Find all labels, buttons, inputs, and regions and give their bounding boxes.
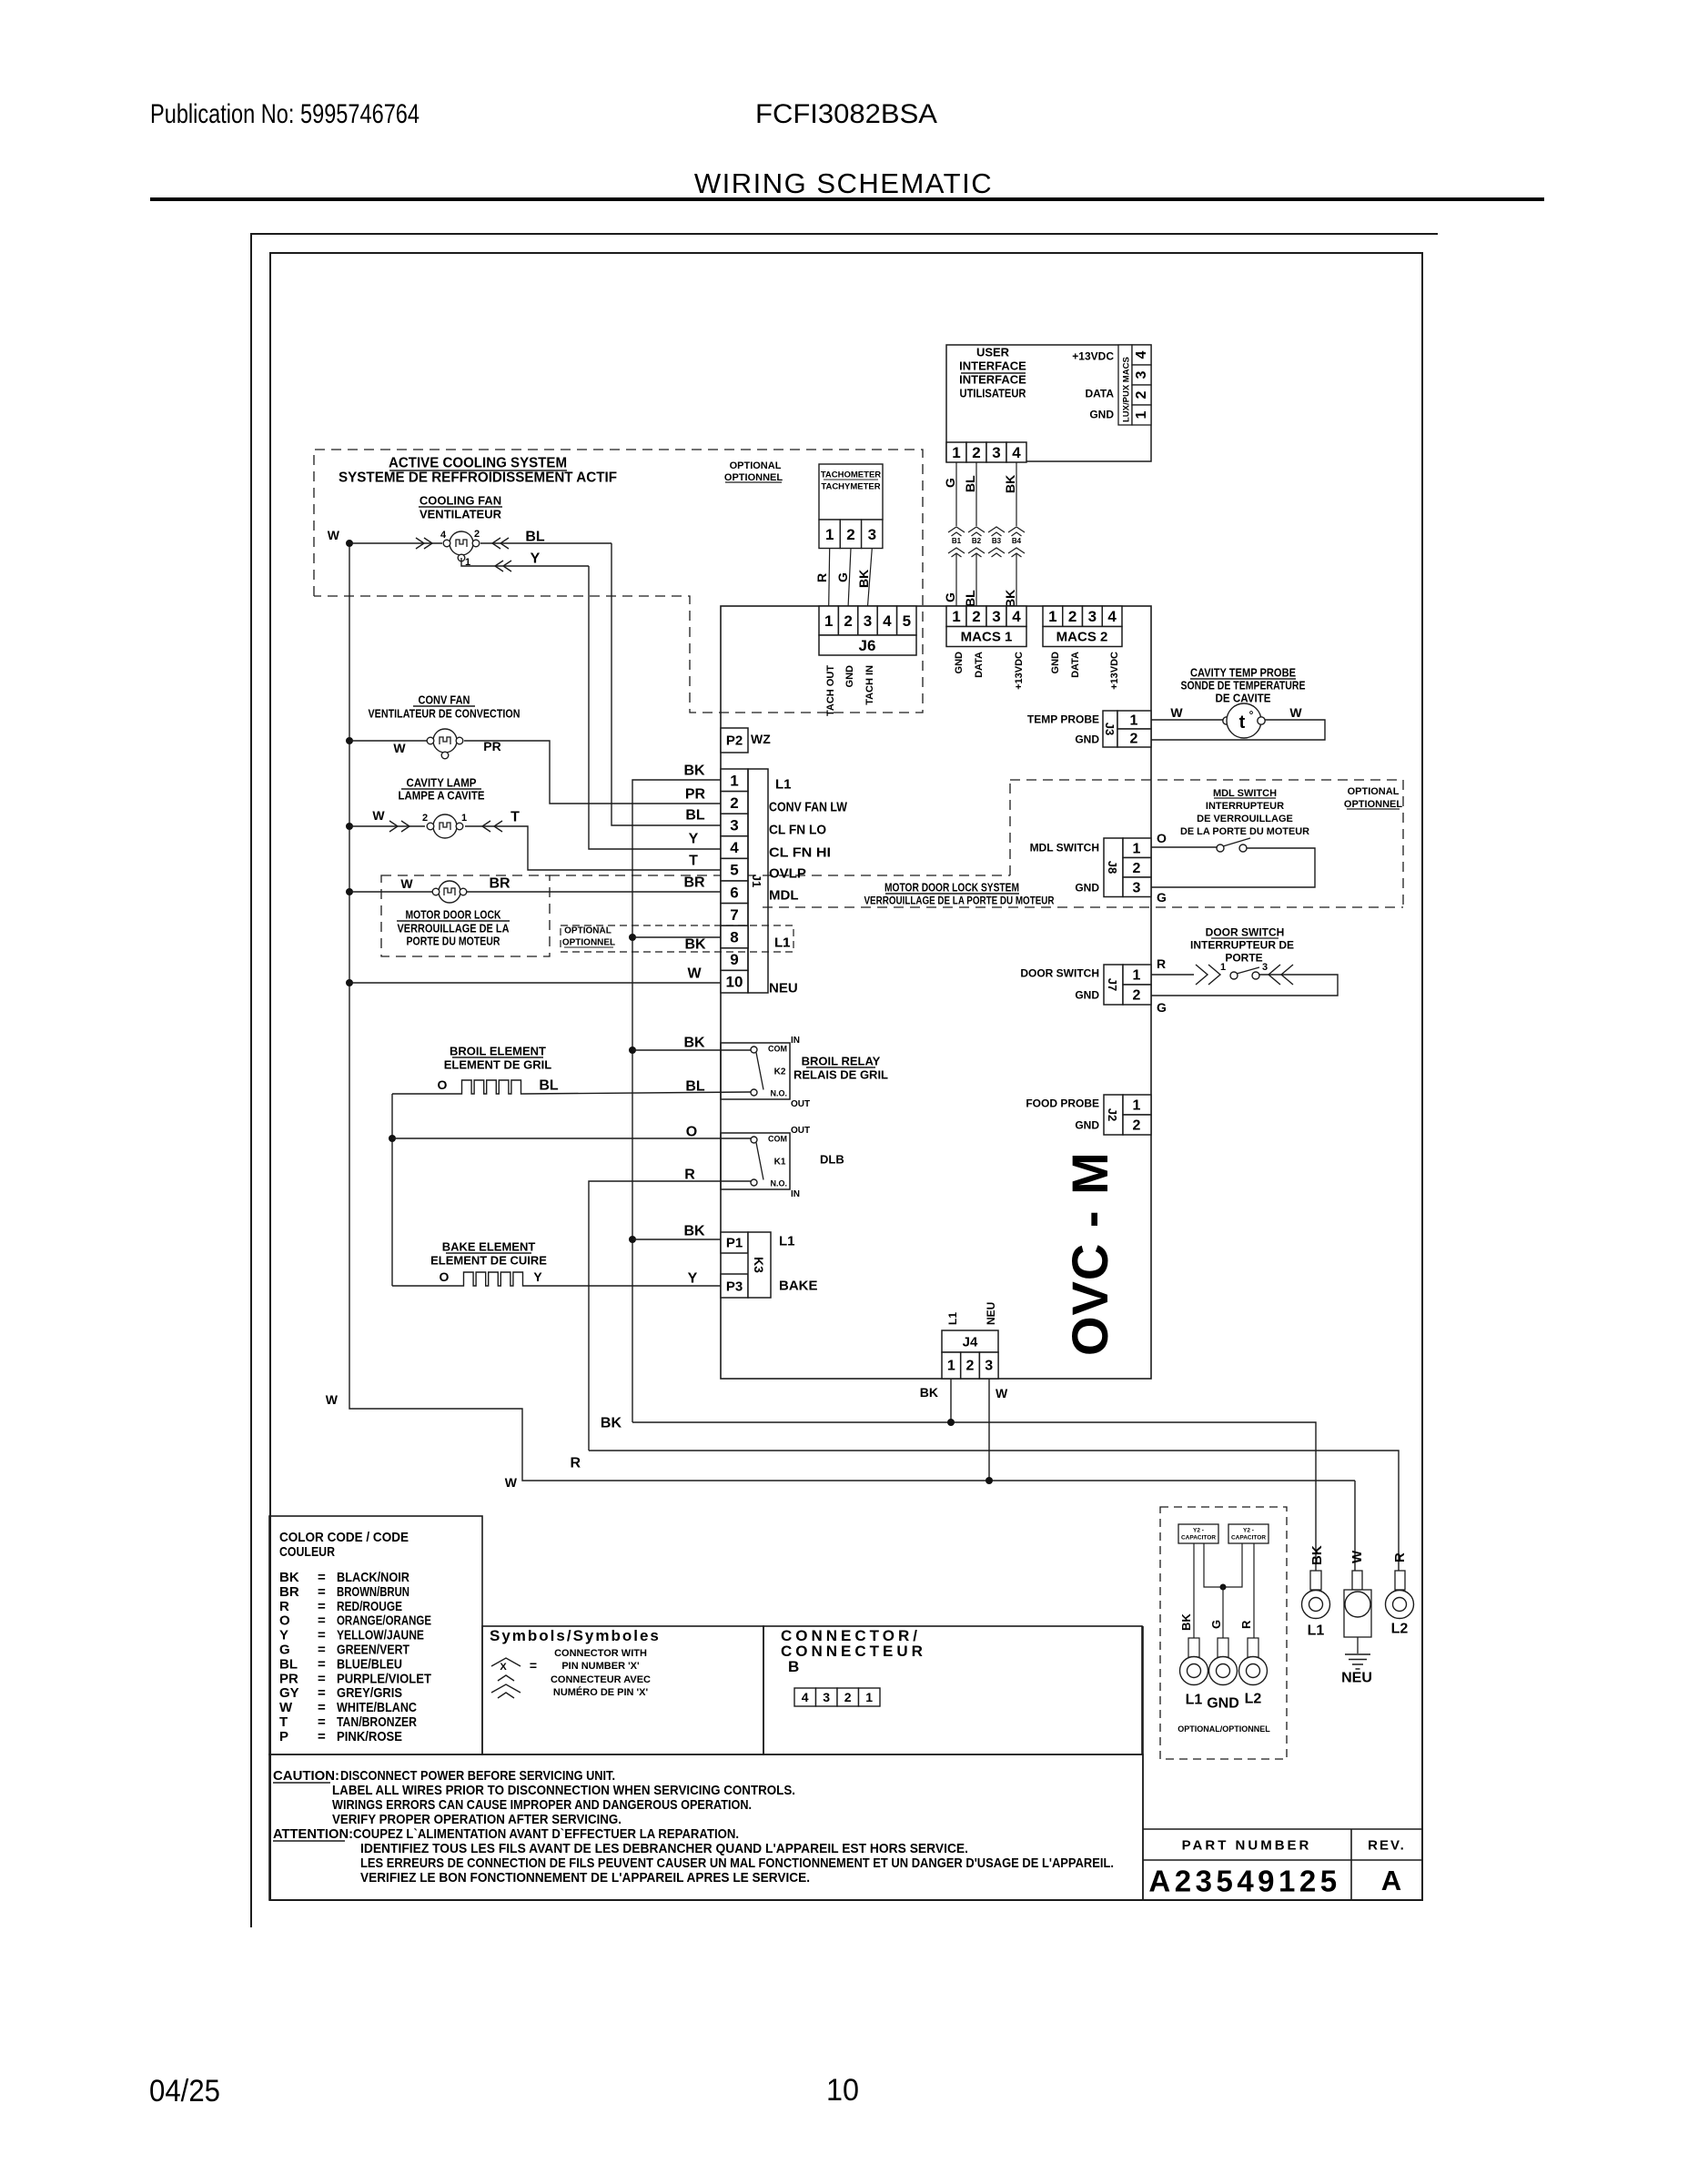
svg-text:1: 1 — [952, 608, 960, 625]
svg-text:R: R — [684, 1168, 695, 1183]
connector J3 on board — [1103, 711, 1117, 747]
svg-text:=: = — [318, 1570, 326, 1585]
svg-text:PINK/ROSE: PINK/ROSE — [337, 1729, 402, 1744]
svg-text:L1: L1 — [1186, 1693, 1203, 1708]
svg-text:LES ERREURS DE CONNECTION DE F: LES ERREURS DE CONNECTION DE FILS PEUVEN… — [360, 1855, 1114, 1871]
svg-text:CONV FAN: CONV FAN — [419, 693, 470, 707]
inner border rectangle — [270, 253, 1422, 1900]
cavity lamp — [349, 825, 425, 827]
svg-text:ELEMENT DE CUIRE: ELEMENT DE CUIRE — [430, 1254, 547, 1268]
svg-text:2: 2 — [972, 608, 980, 625]
svg-text:=: = — [318, 1729, 326, 1744]
svg-text:=: = — [318, 1714, 326, 1730]
svg-text:DATA: DATA — [1070, 652, 1081, 678]
svg-text:04/25: 04/25 — [149, 2074, 220, 2108]
svg-text:OPTIONNEL: OPTIONNEL — [562, 938, 615, 948]
svg-text:O: O — [1157, 831, 1167, 845]
svg-text:COM: COM — [768, 1045, 787, 1054]
svg-text:PORTE DU MOTEUR: PORTE DU MOTEUR — [407, 935, 500, 948]
mdl switch contacts — [1217, 844, 1224, 852]
wire Y bake element to K3 P3 — [524, 1285, 721, 1287]
svg-text:4: 4 — [802, 1690, 809, 1704]
svg-text:PORTE: PORTE — [1225, 951, 1262, 964]
connector P2 on board — [721, 728, 748, 753]
svg-text:GND: GND — [1075, 1118, 1099, 1131]
svg-text:4: 4 — [1012, 444, 1021, 461]
capacitor wiring — [1193, 1543, 1195, 1638]
svg-text:INTERRUPTEUR DE: INTERRUPTEUR DE — [1190, 938, 1294, 951]
svg-text:MOTOR DOOR LOCK: MOTOR DOOR LOCK — [406, 908, 501, 922]
svg-text:USER: USER — [976, 346, 1010, 359]
svg-text:BK: BK — [1309, 1545, 1325, 1565]
svg-text:1: 1 — [1133, 842, 1141, 857]
svg-text:B: B — [788, 1658, 801, 1675]
wire W to J1 pin10 NEU — [349, 982, 721, 984]
wire BK to K3 P1 — [629, 1236, 636, 1243]
svg-text:OVLP: OVLP — [769, 865, 806, 881]
svg-text:BK: BK — [683, 1224, 705, 1239]
svg-text:Symbols/Symboles: Symbols/Symboles — [490, 1627, 661, 1644]
svg-text:3: 3 — [823, 1690, 830, 1704]
svg-text:BK: BK — [856, 570, 871, 588]
svg-text:CONNECTEUR AVEC: CONNECTEUR AVEC — [551, 1674, 651, 1685]
svg-text:4: 4 — [1012, 608, 1021, 625]
svg-text:3: 3 — [868, 526, 876, 543]
part number table — [1142, 1626, 1144, 1900]
svg-text:SONDE DE TEMPERATURE: SONDE DE TEMPERATURE — [1181, 679, 1306, 693]
svg-text:T: T — [689, 854, 698, 869]
Y2 capacitor 1 — [1178, 1524, 1218, 1543]
wire R power bus to terminal L2 — [589, 1451, 1399, 1571]
svg-text:BROWN/BRUN: BROWN/BRUN — [337, 1584, 409, 1600]
svg-text:9: 9 — [730, 951, 738, 968]
svg-text:CONV FAN LW: CONV FAN LW — [769, 799, 848, 814]
wire R tach pin1 to J6 pin1 — [829, 549, 830, 607]
svg-text:1: 1 — [1220, 962, 1226, 973]
svg-text:GREEN/VERT: GREEN/VERT — [337, 1643, 409, 1658]
svg-text:Y: Y — [531, 551, 541, 567]
svg-text:J7: J7 — [1106, 978, 1119, 991]
svg-text:LABEL ALL WIRES PRIOR TO DISCO: LABEL ALL WIRES PRIOR TO DISCONNECTION W… — [332, 1783, 795, 1798]
svg-text:K1: K1 — [774, 1158, 786, 1168]
svg-text:P3: P3 — [726, 1279, 743, 1294]
dashed region: active cooling system + optional tachometer — [314, 450, 923, 713]
svg-text:BK: BK — [601, 1416, 622, 1431]
svg-text:GND: GND — [1089, 408, 1114, 420]
relay K2 broil relay — [721, 1043, 790, 1099]
svg-text:BR: BR — [489, 876, 510, 892]
svg-text:2: 2 — [730, 794, 738, 812]
svg-text:W: W — [687, 966, 702, 982]
svg-text:=: = — [318, 1671, 326, 1686]
svg-text:R: R — [279, 1599, 289, 1614]
svg-text:G: G — [1157, 890, 1167, 905]
svg-text:BAKE ELEMENT: BAKE ELEMENT — [442, 1240, 536, 1254]
svg-text:IN: IN — [791, 1036, 800, 1046]
svg-text:BL: BL — [685, 1079, 705, 1095]
svg-text:MDL SWITCH: MDL SWITCH — [1213, 788, 1277, 799]
svg-text:G: G — [279, 1643, 290, 1658]
svg-text:DISCONNECT POWER BEFORE SERVIC: DISCONNECT POWER BEFORE SERVICING UNIT. — [340, 1768, 615, 1784]
svg-text:B1: B1 — [952, 537, 962, 545]
svg-text:2: 2 — [474, 529, 480, 540]
svg-text:2: 2 — [844, 612, 852, 630]
svg-text:N.O.: N.O. — [770, 1179, 787, 1188]
connector J4 on board — [942, 1330, 998, 1352]
svg-text:X: X — [500, 1662, 507, 1673]
svg-text:CL FN HI: CL FN HI — [769, 844, 831, 860]
svg-text:1: 1 — [1133, 1098, 1141, 1114]
svg-text:2: 2 — [1133, 1118, 1141, 1134]
svg-text:ATTENTION:: ATTENTION: — [273, 1826, 353, 1842]
svg-text:G: G — [1157, 1000, 1167, 1015]
svg-text:R: R — [570, 1456, 581, 1471]
svg-text:Y: Y — [279, 1628, 288, 1643]
svg-text:2: 2 — [966, 1359, 975, 1374]
svg-text:7: 7 — [730, 906, 738, 924]
svg-text:t: t — [1239, 713, 1246, 733]
svg-text:J8: J8 — [1106, 861, 1119, 874]
svg-text:Y: Y — [689, 832, 699, 847]
svg-text:=: = — [318, 1628, 326, 1643]
svg-text:+13VDC: +13VDC — [1072, 349, 1114, 362]
svg-text:INTERFACE: INTERFACE — [959, 359, 1026, 373]
svg-text:NUMÉRO DE PIN 'X': NUMÉRO DE PIN 'X' — [553, 1686, 649, 1698]
svg-text:DATA: DATA — [1085, 387, 1114, 399]
connector B4 — [1008, 527, 1025, 532]
svg-text:10: 10 — [726, 974, 743, 991]
svg-text:1: 1 — [1134, 410, 1149, 419]
svg-text:P: P — [279, 1729, 288, 1744]
svg-text:G: G — [1209, 1620, 1223, 1629]
connector B legend box — [763, 1626, 1142, 1754]
svg-text:=: = — [318, 1685, 326, 1701]
controller board outline OVC-M — [721, 606, 1151, 1379]
svg-text:10: 10 — [826, 2073, 859, 2108]
relay K1 DLB — [721, 1133, 790, 1189]
svg-text:1: 1 — [824, 612, 833, 630]
outer border (partial frame) — [251, 234, 1438, 1927]
svg-text:PIN NUMBER 'X': PIN NUMBER 'X' — [561, 1661, 640, 1672]
svg-text:W: W — [505, 1475, 518, 1490]
svg-text:1: 1 — [1048, 608, 1056, 625]
svg-text:TACHYMETER: TACHYMETER — [821, 481, 880, 491]
svg-text:=: = — [530, 1658, 537, 1673]
svg-text:MDL: MDL — [769, 887, 799, 903]
svg-text:WIRINGS ERRORS CAN CAUSE IMPRO: WIRINGS ERRORS CAN CAUSE IMPROPER AND DA… — [332, 1797, 752, 1813]
svg-text:CAPACITOR: CAPACITOR — [1181, 1534, 1216, 1541]
svg-text:3: 3 — [992, 608, 1000, 625]
wire BR motor door lock to J1 pin6 — [467, 891, 721, 893]
Y2 capacitor 2 — [1228, 1524, 1269, 1543]
door switch connector chevrons (left) — [1196, 965, 1208, 985]
connector J2 on board — [1104, 1095, 1123, 1135]
svg-text:T: T — [510, 810, 520, 825]
connector K3 (P1/P3) — [721, 1232, 748, 1253]
svg-text:3: 3 — [1088, 608, 1097, 625]
connector symbol in legend — [491, 1658, 521, 1666]
svg-text:VERROUILLAGE DE LA: VERROUILLAGE DE LA — [398, 922, 510, 935]
svg-text:2: 2 — [1068, 608, 1076, 625]
svg-text:2: 2 — [972, 444, 980, 461]
connector J7 on board — [1104, 965, 1123, 1005]
svg-text:BK: BK — [279, 1570, 299, 1585]
svg-text:1: 1 — [461, 813, 467, 824]
svg-text:COOLING FAN: COOLING FAN — [419, 494, 501, 508]
svg-text:R: R — [1239, 1620, 1253, 1629]
svg-text:OPTIONAL: OPTIONAL — [1348, 786, 1400, 797]
svg-text:BL: BL — [539, 1078, 559, 1094]
svg-text:MOTOR DOOR LOCK SYSTEM: MOTOR DOOR LOCK SYSTEM — [884, 881, 1019, 895]
svg-text:WIRING SCHEMATIC: WIRING SCHEMATIC — [694, 167, 993, 199]
svg-text:DE LA PORTE DU MOTEUR: DE LA PORTE DU MOTEUR — [1180, 826, 1309, 837]
svg-text:RED/ROUGE: RED/ROUGE — [337, 1599, 402, 1614]
svg-text:BLACK/NOIR: BLACK/NOIR — [337, 1570, 409, 1585]
svg-text:BR: BR — [683, 875, 705, 891]
svg-text:BROIL RELAY: BROIL RELAY — [802, 1055, 881, 1068]
wire G tach pin2 to J6 pin2 — [848, 549, 851, 607]
svg-text:OVC - M: OVC - M — [1061, 1151, 1118, 1356]
svg-text:W: W — [279, 1700, 293, 1715]
svg-text:ACTIVE COOLING SYSTEM: ACTIVE COOLING SYSTEM — [389, 456, 567, 471]
svg-text:1: 1 — [947, 1359, 955, 1374]
wire from J4 pin3 to W bus — [988, 1379, 990, 1481]
svg-text:OUT: OUT — [791, 1126, 810, 1136]
svg-text:CAPACITOR: CAPACITOR — [1231, 1534, 1266, 1541]
temp probe sensor symbol — [1223, 717, 1230, 724]
svg-text:INTERFACE: INTERFACE — [959, 373, 1026, 387]
svg-text:=: = — [318, 1599, 326, 1614]
svg-text:W: W — [1349, 1550, 1365, 1563]
svg-text:GND: GND — [844, 665, 855, 688]
wire BL cooling fan to J1 pin3 — [480, 542, 612, 544]
svg-text:VENTILATEUR: VENTILATEUR — [419, 508, 502, 521]
svg-text:2: 2 — [844, 1690, 852, 1704]
svg-text:CAVITY TEMP PROBE: CAVITY TEMP PROBE — [1190, 666, 1296, 680]
svg-text:BK: BK — [1003, 475, 1017, 493]
wire BL broil element to relay K2 N.O. — [522, 1092, 751, 1094]
svg-text:1: 1 — [730, 772, 738, 789]
svg-text:2: 2 — [1133, 861, 1141, 876]
svg-text:BL: BL — [963, 590, 977, 607]
svg-text:2: 2 — [1130, 732, 1138, 747]
svg-text:3: 3 — [1262, 962, 1268, 973]
wire O J8 pin1 to mdl switch — [1151, 846, 1217, 848]
svg-text:3: 3 — [992, 444, 1000, 461]
svg-text:TACH IN: TACH IN — [864, 665, 875, 705]
svg-text:YELLOW/JAUNE: YELLOW/JAUNE — [337, 1628, 424, 1643]
svg-text:TACH OUT: TACH OUT — [825, 665, 836, 716]
svg-text:BK: BK — [1003, 590, 1017, 608]
svg-text:COM: COM — [768, 1135, 787, 1144]
svg-text:GND: GND — [1075, 881, 1099, 894]
svg-text:DE VERROUILLAGE: DE VERROUILLAGE — [1197, 814, 1293, 824]
wire BK tach pin3 to J6 pin3 — [868, 549, 873, 607]
svg-text:BL: BL — [525, 530, 545, 545]
optional dashed box at J1 pin8 — [561, 925, 793, 952]
svg-text:L1: L1 — [946, 1312, 959, 1325]
svg-text:W: W — [1170, 705, 1183, 720]
svg-text:Y: Y — [533, 1269, 542, 1284]
svg-text:PR: PR — [279, 1671, 298, 1686]
svg-text:B2: B2 — [972, 537, 982, 545]
svg-text:VENTILATEUR DE CONVECTION: VENTILATEUR DE CONVECTION — [369, 707, 521, 721]
svg-text:PURPLE/VIOLET: PURPLE/VIOLET — [337, 1671, 431, 1686]
svg-text:UTILISATEUR: UTILISATEUR — [960, 387, 1027, 400]
svg-text:W: W — [328, 528, 340, 542]
svg-text:INTERRUPTEUR: INTERRUPTEUR — [1206, 801, 1284, 812]
svg-text:=: = — [318, 1656, 326, 1672]
svg-text:T: T — [279, 1714, 288, 1730]
svg-text:PR: PR — [483, 739, 500, 753]
dashed region: motor door lock system band — [550, 875, 1010, 876]
svg-text:O: O — [438, 1077, 448, 1092]
svg-text:O: O — [440, 1269, 450, 1284]
wire R relay K1 N.O. to power bus — [589, 1181, 751, 1451]
connector MACS 2 on board — [1043, 605, 1122, 607]
wire R J7 pin1 to door switch — [1151, 974, 1194, 976]
cooling fan motor — [349, 542, 442, 544]
connector B pin row 4-3-2-1 — [794, 1688, 816, 1706]
symbols legend box — [482, 1626, 763, 1754]
svg-text:DATA: DATA — [974, 652, 985, 678]
svg-text:B4: B4 — [1012, 537, 1022, 545]
svg-text:MACS 2: MACS 2 — [1056, 629, 1108, 644]
wire PR conv fan to J1 pin2 — [464, 741, 721, 804]
svg-text:WZ: WZ — [751, 732, 771, 746]
svg-text:Publication No: 5995746764: Publication No: 5995746764 — [150, 99, 419, 129]
svg-text:+13VDC: +13VDC — [1109, 652, 1120, 690]
svg-text:NEU: NEU — [985, 1302, 997, 1325]
svg-text:GREY/GRIS: GREY/GRIS — [337, 1685, 402, 1701]
svg-text:A23549125: A23549125 — [1148, 1865, 1340, 1898]
svg-text:CAUTION:: CAUTION: — [273, 1768, 339, 1784]
motor door lock component — [349, 891, 432, 893]
svg-text:BL: BL — [685, 808, 705, 824]
svg-text:O: O — [686, 1125, 697, 1140]
svg-text:2: 2 — [846, 526, 854, 543]
svg-text:N.O.: N.O. — [770, 1089, 787, 1098]
svg-text:IDENTIFIEZ TOUS LES FILS AVANT: IDENTIFIEZ TOUS LES FILS AVANT DE LES DE… — [360, 1841, 968, 1856]
svg-text:GND: GND — [1075, 988, 1099, 1001]
connector J6 on board — [819, 606, 838, 635]
svg-text:3: 3 — [1134, 370, 1149, 379]
svg-text:OUT: OUT — [791, 1099, 810, 1109]
svg-text:R: R — [1392, 1552, 1408, 1562]
svg-text:=: = — [318, 1643, 326, 1658]
svg-text:TACHOMETER: TACHOMETER — [821, 470, 881, 480]
svg-text:1: 1 — [825, 526, 834, 543]
wire BK optional to J1 pin8 — [629, 934, 636, 941]
svg-text:4: 4 — [440, 530, 447, 541]
svg-text:=: = — [318, 1700, 326, 1715]
svg-text:MACS 1: MACS 1 — [961, 629, 1013, 644]
color code box — [269, 1516, 482, 1754]
svg-text:K3: K3 — [752, 1257, 766, 1273]
dashed box: optional Y2 capacitors — [1160, 1507, 1287, 1759]
svg-text:L2: L2 — [1391, 1622, 1409, 1637]
title rule — [150, 197, 1544, 201]
svg-text:TAN/BRONZER: TAN/BRONZER — [337, 1714, 417, 1730]
svg-text:CONNECTEUR: CONNECTEUR — [781, 1643, 926, 1660]
wire BK from UI pin4 to MACS1 pin4 — [1016, 462, 1017, 526]
wire BK J1 pin1 — [632, 780, 721, 1422]
caution box — [269, 1754, 1143, 1900]
svg-text:2: 2 — [1134, 390, 1149, 399]
svg-text:BLUE/BLEU: BLUE/BLEU — [337, 1656, 402, 1672]
svg-text:G: G — [943, 592, 957, 602]
wire BK to broil relay COM — [629, 1046, 636, 1054]
svg-text:W: W — [372, 808, 385, 823]
svg-text:LUX/PUX MACS: LUX/PUX MACS — [1122, 357, 1132, 422]
svg-text:VERIFIEZ LE BON FONCTIONNEMENT: VERIFIEZ LE BON FONCTIONNEMENT DE L'APPA… — [360, 1870, 810, 1886]
svg-text:Y: Y — [688, 1271, 698, 1287]
svg-text:BK: BK — [683, 763, 705, 779]
svg-text:BK: BK — [684, 937, 706, 953]
svg-text:VERIFY PROPER OPERATION AFTER: VERIFY PROPER OPERATION AFTER SERVICING. — [332, 1812, 622, 1827]
svg-text:FOOD PROBE: FOOD PROBE — [1026, 1097, 1099, 1109]
svg-text:IN: IN — [791, 1189, 800, 1199]
svg-text:BAKE: BAKE — [779, 1278, 818, 1293]
user interface pin row 1-4 — [946, 442, 966, 462]
svg-text:OPTIONNEL: OPTIONNEL — [724, 472, 783, 483]
svg-text:ELEMENT DE GRIL: ELEMENT DE GRIL — [444, 1058, 552, 1072]
svg-text:DOOR SWITCH: DOOR SWITCH — [1206, 925, 1285, 938]
svg-text:CL FN LO: CL FN LO — [769, 822, 826, 837]
connector J1 pin column 1-10 — [721, 769, 748, 792]
svg-text:3: 3 — [864, 612, 872, 630]
svg-text:P1: P1 — [726, 1235, 743, 1250]
svg-text:OPTIONNEL: OPTIONNEL — [1344, 799, 1402, 810]
svg-text:1: 1 — [865, 1690, 873, 1704]
svg-text:G: G — [835, 572, 850, 582]
svg-text:3: 3 — [985, 1359, 993, 1374]
connector MACS 1 on board — [946, 606, 966, 627]
svg-text:1: 1 — [1130, 713, 1138, 729]
svg-text:4: 4 — [883, 612, 892, 630]
svg-text:OPTIONAL: OPTIONAL — [564, 926, 612, 936]
wire door switch return to J7 pin2 GND — [1151, 975, 1338, 996]
wire W J3 pin1 to temp probe — [1151, 719, 1224, 721]
svg-text:J3: J3 — [1103, 723, 1117, 735]
connector B2 — [968, 527, 985, 532]
wire G from UI pin1 to MACS1 pin1 — [955, 462, 957, 526]
svg-text:R: R — [1157, 956, 1166, 971]
wire Y cooling fan to J1 pin4 — [461, 558, 589, 566]
svg-text:O: O — [279, 1613, 290, 1629]
svg-text:SYSTEME DE REFFROIDISSEMENT AC: SYSTEME DE REFFROIDISSEMENT ACTIF — [339, 470, 617, 486]
bake element (resistor) — [392, 1285, 462, 1287]
user interface box — [946, 345, 1151, 461]
svg-text:L1: L1 — [1308, 1623, 1325, 1639]
svg-text:8: 8 — [730, 929, 738, 946]
svg-text:OPTIONAL: OPTIONAL — [730, 460, 782, 471]
svg-text:GY: GY — [279, 1685, 299, 1701]
svg-text:W: W — [393, 741, 406, 755]
tachometer box — [819, 464, 883, 520]
svg-text:P2: P2 — [726, 733, 743, 748]
svg-text:GND: GND — [1207, 1696, 1239, 1712]
svg-text:4: 4 — [1134, 350, 1149, 359]
svg-text:NEU: NEU — [769, 980, 798, 996]
connector B3 — [988, 527, 1005, 532]
svg-text:DLB: DLB — [820, 1153, 844, 1167]
svg-text:BROIL ELEMENT: BROIL ELEMENT — [450, 1045, 546, 1058]
connector J8 on board — [1104, 838, 1123, 897]
svg-text:ORANGE/ORANGE: ORANGE/ORANGE — [337, 1613, 431, 1629]
svg-text:GND: GND — [954, 652, 965, 674]
svg-text:4: 4 — [1107, 608, 1117, 625]
